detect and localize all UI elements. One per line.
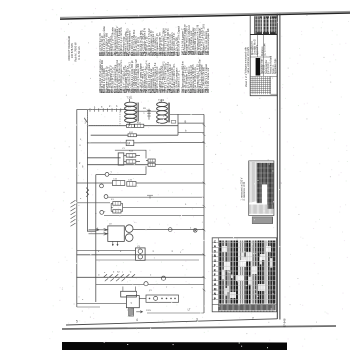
svg-text:Rub M, 7600 W: Rub M, 7600 W <box>74 42 78 62</box>
chevrons on second bus <box>86 188 89 197</box>
frame right double border <box>276 14 278 319</box>
node circle N1 <box>105 173 109 177</box>
svg-text:carbon 0.1 uF 1.: carbon 0.1 uF 1. <box>177 70 180 89</box>
valve V1 <box>118 153 124 165</box>
arrow at plug <box>136 311 142 313</box>
table header letters <box>214 240 217 301</box>
svg-text:wirewound paper 22k: wirewound paper 22k <box>207 28 210 51</box>
table data stripes <box>219 241 274 304</box>
junction dots <box>76 125 204 291</box>
arrows into V2 <box>89 229 108 236</box>
connector box C <box>126 296 139 308</box>
parts list column group B (rotated text) <box>182 23 210 93</box>
wire: rail y=142.9 <box>87 141 204 144</box>
svg-text:B8 305 54 10 % Capacit: B8 305 54 10 % Capacit <box>177 26 180 52</box>
wire: second vertical bus <box>87 109 95 231</box>
revision section white text slits <box>256 16 276 33</box>
frame bottom border <box>66 319 277 325</box>
svg-text:CD 578-545: CD 578-545 <box>70 43 74 58</box>
lamp circle on V2 rail <box>168 228 172 232</box>
table micro text row <box>220 310 275 313</box>
resistor R2 <box>127 124 135 127</box>
contact labels <box>104 271 132 273</box>
relay K1 contacts box <box>113 202 121 206</box>
fuse marks on left bus <box>71 200 76 226</box>
table white streaks <box>222 246 271 298</box>
wire: left vertical bus <box>76 109 78 307</box>
page top edge shadow line upper <box>60 11 350 17</box>
node circle N3 <box>104 195 108 199</box>
pilot lamp P2 <box>144 282 148 286</box>
svg-text:T 201: T 201 <box>127 98 134 100</box>
svg-text:220V: 220V <box>146 310 152 312</box>
voltage table dark mass C <box>267 163 273 209</box>
table bottom hatched row <box>219 305 275 310</box>
wire: rail y=197.2 <box>108 196 204 198</box>
svg-text:Drawn 4-6-57: Drawn 4-6-57 <box>251 40 254 55</box>
leads above connector <box>123 287 136 292</box>
wire V2 right <box>133 229 204 231</box>
choke between transformers <box>137 110 157 112</box>
svg-text:CD 578-544: CD 578-544 <box>264 43 266 56</box>
tiny component labels <box>80 102 192 312</box>
V2 lead dots <box>112 244 118 246</box>
scanner black bar <box>62 342 287 350</box>
small tick box right of T2 <box>171 121 176 124</box>
wire: rail y=277.3 <box>77 276 204 278</box>
svg-text:2. tolerance 10 %: 2. tolerance 10 % <box>243 181 246 200</box>
wire from box C right <box>139 297 146 299</box>
table column grid lines overlay <box>218 243 275 300</box>
wire: rail y=125.6 <box>87 125 178 127</box>
voltage table dark mass B <box>262 163 267 185</box>
small hatched block under voltage table <box>252 217 272 224</box>
wire: top rail labels <box>94 105 118 109</box>
valve V2 envelope <box>108 226 125 242</box>
title block logo black bar <box>256 58 261 76</box>
capacitor C1 box <box>112 181 124 186</box>
inductor L1 box <box>126 140 134 145</box>
svg-text:97-848: 97-848 <box>282 318 286 327</box>
wire: rail y=202.8 <box>77 202 110 204</box>
svg-text:B: B <box>185 119 187 123</box>
mains connector hatched plug <box>129 308 134 316</box>
valve V3 <box>136 248 146 260</box>
wire: mid vertical bus <box>95 175 97 302</box>
svg-text:CIRCUIT DIAGRAM: CIRCUIT DIAGRAM <box>67 35 71 60</box>
wire: rail y=135.2 <box>91 134 178 136</box>
svg-text:Apparatus type: Apparatus type <box>274 58 277 74</box>
wire: rail y=254.8 <box>77 254 204 256</box>
svg-text:/1 A. 50 c/s: /1 A. 50 c/s <box>77 46 81 60</box>
resistor R3 <box>135 124 144 127</box>
wire: vertical x=177.5 <box>177 114 179 135</box>
page bottom edge shadow line <box>62 326 336 329</box>
terminal strip dots <box>149 298 176 300</box>
wire: right vertical bus <box>203 115 205 314</box>
wire: rail y=183 <box>77 182 204 184</box>
page top edge shadow line <box>60 13 350 19</box>
bottom rail to right bus <box>147 312 204 314</box>
title block revision section dense blocks <box>255 16 262 34</box>
wire bottom stub <box>77 306 100 308</box>
transformer T2 <box>157 100 170 124</box>
wire bottom rail <box>77 302 127 304</box>
switch contact row <box>104 274 135 277</box>
wire: top rail <box>77 109 126 111</box>
shield box (dashed enclosure) <box>87 110 120 126</box>
lead from box C to plug <box>130 307 132 310</box>
wire: rail y=250.6 (short) <box>77 250 136 252</box>
main voltage/current table outer border <box>212 238 276 312</box>
title block outer border <box>250 15 277 96</box>
wire: rail y=157.8 <box>87 157 120 159</box>
table right dark column <box>273 241 276 304</box>
terminal strip box <box>146 295 179 302</box>
resistor R5 <box>126 154 136 157</box>
switch S1 on bus <box>85 119 88 123</box>
wire: rail y=215.3 <box>104 215 204 217</box>
valve V2 anode circle <box>125 225 133 233</box>
voltage table white slits <box>258 163 273 209</box>
relay K2 contacts box <box>113 210 121 213</box>
title block revision grid <box>250 76 270 94</box>
svg-text:M: M <box>127 141 130 145</box>
wire feed to R7 pair <box>115 150 146 158</box>
wire: rail y=174.6 <box>96 174 146 176</box>
title block divider <box>250 34 277 36</box>
table base fine texture <box>219 241 275 304</box>
notes beside voltage table <box>240 177 246 200</box>
voltage table border <box>249 161 274 216</box>
resistor R8 <box>148 163 155 166</box>
title block middle text <box>251 39 277 74</box>
tick on rail 197 <box>147 195 153 198</box>
note text column near title block <box>245 46 251 87</box>
svg-text:5 % 1M Volume cont: 5 % 1M Volume cont <box>207 68 210 89</box>
svg-text:5: 5 <box>76 320 78 324</box>
parts list column group A (rotated text) <box>99 25 180 93</box>
svg-text:LT: LT <box>188 308 191 312</box>
pilot lamp P1 <box>161 276 165 280</box>
svg-text:2: 2 <box>252 317 254 321</box>
extra contact slashes below rail <box>105 278 125 281</box>
capacitor C2 box <box>127 182 136 187</box>
voltage table bottom stripes <box>250 205 273 214</box>
table header strip <box>212 238 218 312</box>
svg-text:valve voltmeter 20 kO/V: valve voltmeter 20 kO/V <box>247 47 250 74</box>
voltage table dark mass A <box>257 163 262 203</box>
svg-text:m: m <box>98 275 100 277</box>
stub rail B2 <box>178 131 204 133</box>
crossed circle X1 on rail <box>193 228 197 232</box>
svg-text:sheet 1 of 1: sheet 1 of 1 <box>245 73 248 87</box>
title block grid right cell <box>271 76 278 94</box>
V2 bottom leads <box>113 241 118 246</box>
node circle N4 <box>100 211 104 215</box>
wire: vertical x=146 <box>145 166 147 174</box>
valve V2 cathode circle <box>125 234 133 242</box>
resistor R6 <box>126 160 136 163</box>
title block inner borders <box>257 35 259 58</box>
resistor R4 <box>128 134 136 137</box>
title block top section dividers <box>254 16 256 34</box>
svg-text:4: 4 <box>136 318 138 322</box>
wire from relay to right bus <box>111 203 204 211</box>
wire: rail y=284.7 <box>96 284 204 286</box>
wire: rail y=260 <box>96 259 199 261</box>
svg-text:F: F <box>214 273 216 277</box>
meter M1 circle in strip <box>154 296 158 300</box>
stub rail B1 <box>178 122 204 124</box>
wire T2 to vertical <box>170 113 204 115</box>
wire: rail y=164.5 <box>87 164 148 166</box>
svg-text:M: M <box>214 287 217 291</box>
rail end ticks on right bus <box>203 124 206 291</box>
node circle N2 <box>100 184 104 188</box>
voltage table left fine texture <box>250 162 256 203</box>
transformer T1 <box>125 99 139 126</box>
connector upper box <box>121 291 137 297</box>
tick row on top rail <box>90 108 121 112</box>
resistor R7 <box>148 159 155 162</box>
